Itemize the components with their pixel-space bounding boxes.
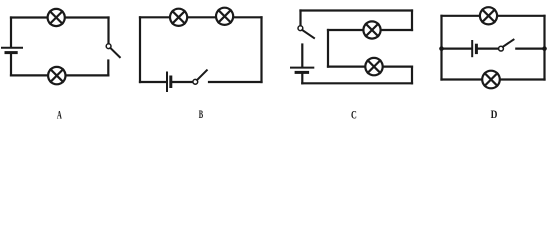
wire C left mid <box>301 45 303 67</box>
wire D mid-left <box>442 47 472 49</box>
battery A (cell) <box>2 48 22 53</box>
node D right junction <box>542 46 547 51</box>
switch A (open) <box>106 44 120 57</box>
lamp A1 (top) <box>48 9 65 26</box>
wire D mid-center <box>476 47 498 49</box>
lamp B2 <box>216 8 233 25</box>
svg-text:C: C <box>351 108 357 122</box>
wire C lamp2 row <box>328 65 412 67</box>
lamp D2 (bottom) <box>482 71 500 89</box>
wire A left <box>10 18 12 47</box>
wire B bottom-right <box>209 81 262 83</box>
lamp D1 (top) <box>480 7 497 24</box>
wire B top <box>140 16 262 18</box>
wire B right <box>260 17 262 82</box>
wire C left upper <box>299 11 301 26</box>
wire A right lower <box>107 61 109 76</box>
wire A left lower <box>10 53 12 76</box>
battery B (cell) <box>167 73 171 92</box>
wire C lamp1 row <box>328 29 412 31</box>
wire C bottom <box>302 82 412 84</box>
wire C right upper <box>411 11 413 31</box>
wire C inner left <box>327 30 329 67</box>
wire C right lower <box>411 67 413 84</box>
battery D (cell) <box>472 41 476 56</box>
svg-text:D: D <box>491 107 498 121</box>
switch D (open) <box>499 40 514 51</box>
lamp B1 <box>170 9 187 26</box>
wire D left <box>440 16 442 80</box>
lamp A2 (bottom) <box>48 67 65 84</box>
wire C left lower <box>301 72 303 83</box>
battery C (cell) <box>291 68 313 73</box>
wire B left <box>139 17 141 82</box>
wire B bottom-left <box>140 81 166 83</box>
wire D right <box>543 16 545 80</box>
svg-text:A: A <box>57 108 62 122</box>
switch C (open) <box>298 26 314 38</box>
wire D bottom <box>442 78 545 80</box>
lamp C2 <box>365 58 382 75</box>
wire D mid-right <box>516 47 544 49</box>
wire A bottom <box>11 74 108 76</box>
wire B bottom-mid <box>171 81 193 83</box>
wire A right upper <box>107 18 109 44</box>
wire D top <box>442 15 545 17</box>
switch B (open) <box>193 70 207 84</box>
lamp C1 <box>363 21 380 38</box>
svg-text:B: B <box>199 107 203 121</box>
node D left junction <box>439 46 444 51</box>
wire A top <box>11 16 109 18</box>
wire C top <box>301 9 413 11</box>
